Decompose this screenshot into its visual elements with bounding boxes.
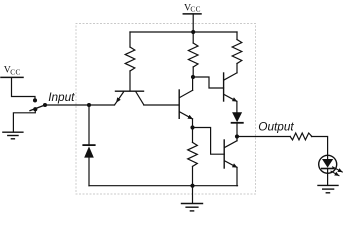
resistor R5	[290, 133, 312, 140]
wire switch lower contact to ground	[13, 109, 35, 132]
Vcc label (left)	[4, 64, 21, 76]
wire Q4 collector to node	[236, 137, 238, 141]
wire bottom ground rail	[89, 185, 238, 187]
resistor R3	[188, 128, 198, 186]
node output junction	[235, 134, 239, 138]
wire Q1 collector to Q2 base	[144, 104, 179, 106]
wire junction to Q4 base	[193, 128, 225, 155]
wire junction to Q3 base	[193, 77, 224, 88]
node rail/ground junction	[190, 184, 194, 188]
node switch upper contact	[33, 98, 37, 102]
ground (left)	[3, 132, 23, 139]
IC package dashed box	[76, 24, 256, 195]
svg-text:CC: CC	[10, 68, 21, 77]
wire top supply rail	[130, 31, 237, 33]
node input/D1 junction	[87, 103, 91, 107]
transistor Q1	[115, 91, 144, 105]
ground (LED)	[318, 185, 338, 192]
resistor R4	[232, 32, 242, 73]
svg-text:Input: Input	[48, 90, 75, 104]
diode D1	[83, 105, 94, 186]
wire input	[45, 104, 115, 106]
svg-text:CC: CC	[190, 5, 201, 14]
svg-text:Output: Output	[258, 120, 294, 134]
node Vcc rail junction	[191, 30, 195, 34]
wire Vcc stem to rail	[192, 14, 194, 32]
wire left Vcc to switch upper contact	[12, 78, 36, 100]
LED D3	[319, 155, 337, 185]
switch SW1 lever	[30, 105, 45, 111]
resistor R2	[188, 32, 198, 77]
transistor Q3	[224, 73, 237, 102]
node R2/Q2/Q3 junction	[191, 75, 195, 79]
wire resistor to LED	[312, 137, 328, 160]
wire output node to resistor	[237, 136, 290, 138]
transistor Q2	[179, 90, 192, 119]
node switch lower contact	[33, 107, 37, 111]
ground (bottom center)	[182, 186, 203, 211]
resistor R1	[125, 32, 135, 91]
wire Q4 emitter to rail	[236, 167, 238, 185]
node Q2e/R3/Q4b junction	[190, 125, 194, 129]
transistor Q4	[224, 140, 237, 168]
wire Q3 emitter to diode	[236, 101, 238, 112]
Vcc label (top)	[184, 3, 201, 14]
diode D2	[232, 112, 243, 136]
node switch pole	[43, 103, 47, 107]
LED light arrows	[331, 167, 342, 176]
wire Q2 emitter down	[192, 119, 194, 128]
Vcc power bar (left)	[1, 76, 23, 78]
Vcc power bar (top)	[183, 13, 201, 15]
wire Q2 collector up	[192, 77, 194, 90]
